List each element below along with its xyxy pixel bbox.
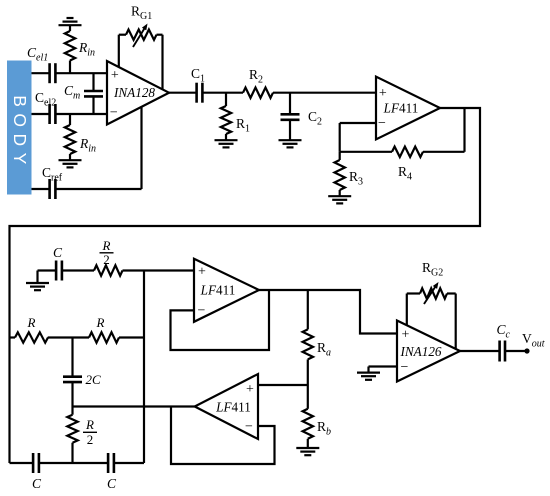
svg-text:C: C: [107, 476, 117, 491]
pin + U2: [379, 86, 387, 101]
node Vout terminal: [524, 348, 529, 353]
svg-text:+: +: [246, 382, 254, 397]
rheostat RG1: [126, 24, 157, 48]
resistor R3: [335, 160, 345, 190]
svg-text:+: +: [402, 327, 410, 342]
wire RG2 right leg: [447, 294, 456, 350]
wire line1 body to INA128 +in: [32, 72, 108, 74]
svg-text:2: 2: [87, 432, 94, 447]
label R/2 row3: [83, 417, 97, 447]
svg-text:+: +: [379, 86, 387, 101]
resistor R3 stubs: [339, 152, 341, 196]
svg-text:INA128: INA128: [113, 85, 155, 100]
wire RG1 left leg: [119, 35, 126, 67]
wire row3: [73, 405, 195, 407]
resistor R1: [221, 106, 231, 134]
wire node vertical x144: [143, 271, 145, 464]
capacitor Cc: [500, 341, 505, 362]
capacitor C bottom-2: [108, 453, 114, 473]
label LF411 U3: [200, 283, 236, 298]
wire U2 output to bottom section: [10, 108, 481, 463]
wire RG1 right leg: [157, 35, 163, 90]
op-amp U4 LF411: [195, 374, 258, 439]
pin - U2: [378, 116, 386, 131]
ground Rin bottom: [59, 160, 82, 167]
svg-text:2: 2: [103, 252, 110, 267]
wire R2 to LF411 +in: [273, 92, 376, 94]
label Cc: [497, 322, 511, 341]
label Rb: [317, 419, 331, 438]
pin + INA128: [111, 68, 119, 83]
label Vout: [522, 331, 545, 350]
label R3: [349, 169, 363, 188]
capacitor C row1: [56, 261, 62, 281]
svg-text:R: R: [96, 315, 105, 330]
pin - U4: [245, 420, 253, 435]
wire Rin-top stub: [69, 25, 71, 73]
pin + U5: [402, 327, 410, 342]
label C bottom-2: [107, 476, 117, 491]
op-amp U3 LF411: [194, 259, 259, 322]
resistor R row2-2: [89, 332, 119, 342]
capacitor C bottom-1: [33, 453, 39, 473]
resistor R row2-1: [15, 332, 48, 342]
label Cref: [42, 165, 63, 184]
wire U4 feedback: [171, 407, 275, 465]
svg-text:+: +: [111, 68, 119, 83]
label Cel2: [35, 90, 56, 109]
svg-text:C: C: [32, 476, 42, 491]
wire C2 stubs: [289, 93, 291, 141]
resistor Rin top: [65, 31, 75, 61]
label C row1: [53, 245, 63, 260]
svg-text:LF411: LF411: [383, 101, 419, 116]
svg-text:−: −: [245, 420, 253, 435]
rheostat RG2: [420, 282, 447, 304]
wire row2 c: [119, 336, 144, 338]
label R row2-1: [27, 315, 36, 330]
svg-text:R: R: [102, 238, 111, 253]
wire bottom row a: [10, 462, 33, 464]
label INA126: [399, 344, 441, 359]
pin - U3: [198, 304, 206, 319]
label C bottom-1: [32, 476, 42, 491]
label LF411 top: [383, 101, 419, 116]
svg-text:+: +: [198, 264, 206, 279]
wire row2 a: [10, 336, 16, 338]
pin + U3: [198, 264, 206, 279]
wire Cc to Vout terminal: [506, 350, 528, 352]
pin - INA128: [110, 106, 118, 121]
wire bottom row c: [114, 462, 144, 464]
resistor Ra: [303, 329, 313, 359]
wire line2 body to INA128 -in: [32, 113, 108, 115]
wire row1 a: [38, 269, 56, 271]
resistor Ra stubs: [307, 290, 309, 385]
svg-text:LF411: LF411: [215, 400, 251, 415]
svg-text:−: −: [198, 304, 206, 319]
capacitor 2C: [63, 377, 82, 382]
pin - U5: [401, 360, 409, 375]
capacitor Cel1: [50, 63, 56, 83]
op-amp U5 INA126: [397, 321, 460, 382]
resistor Rb stubs: [307, 385, 309, 448]
ground top (inverted): [59, 18, 82, 25]
ground R1: [215, 140, 238, 147]
svg-text:INA126: INA126: [399, 344, 441, 359]
svg-text:R: R: [27, 315, 36, 330]
wire row1 to U3 +in: [123, 269, 195, 271]
label RG1: [131, 4, 152, 23]
ground R3: [328, 196, 351, 203]
ground row1: [26, 271, 49, 291]
label R4: [398, 164, 412, 183]
wire U3 out to INA126: [259, 290, 397, 334]
svg-text:−: −: [401, 360, 409, 375]
label Cel1: [27, 45, 48, 64]
label RG2: [422, 260, 443, 279]
wire Cref to INA128 ref pin: [140, 106, 142, 189]
capacitor Cel2: [50, 104, 56, 124]
label Ra: [317, 340, 331, 359]
resistor Rb: [303, 409, 313, 439]
ground U5 -in: [357, 373, 380, 380]
wire row2 b: [48, 336, 89, 338]
wire feedback right: [423, 108, 465, 152]
label R1: [236, 116, 250, 135]
capacitor C2: [281, 114, 300, 120]
label C2: [308, 109, 322, 128]
op-amp U1 INA128: [107, 61, 169, 125]
wire C1 to R2: [203, 92, 243, 94]
svg-text:R: R: [85, 417, 94, 432]
capacitor Cref: [50, 179, 56, 199]
wire U2 -in to R3 node: [340, 123, 376, 152]
resistor R/2 row3: [67, 415, 77, 443]
capacitor C1: [197, 83, 203, 103]
label LF411 U4: [215, 400, 251, 415]
capacitor Cm: [84, 91, 103, 96]
BODY electrode block: [7, 61, 32, 195]
label R/2 row1: [100, 238, 114, 267]
label 2C: [86, 372, 102, 387]
label C1: [191, 66, 205, 85]
svg-text:2C: 2C: [86, 372, 102, 387]
svg-text:C: C: [53, 245, 63, 260]
wire INA128 out to C1: [169, 92, 196, 94]
wire U5 -in to ground: [369, 367, 398, 373]
svg-text:−: −: [110, 106, 118, 121]
resistor R4: [392, 147, 423, 157]
wire U3 feedback: [171, 290, 270, 350]
label Rin top: [78, 40, 95, 59]
label R2: [249, 67, 263, 86]
wire Cm stubs: [92, 73, 94, 114]
ground Rb: [296, 448, 319, 455]
resistor Rin bottom: [65, 125, 75, 154]
op-amp U2 LF411: [376, 77, 440, 140]
wire bottom row b: [39, 462, 108, 464]
resistor R/2-2 stubs: [71, 407, 73, 464]
wire RG2 left leg: [407, 294, 420, 326]
resistor R1 stub: [225, 93, 227, 141]
label Cm: [64, 83, 80, 102]
label R row2-2: [96, 315, 105, 330]
label Rin bottom: [79, 136, 96, 155]
pin + U4: [246, 382, 254, 397]
ground C2: [279, 140, 302, 147]
wire Ra-Rb node to U4 +in: [258, 384, 308, 386]
wire 2C stubs: [71, 338, 73, 407]
wire line3 Cref net: [32, 188, 142, 190]
wire U5 out to Cc: [460, 350, 499, 352]
wire feedback left: [340, 151, 392, 153]
svg-text:BODY: BODY: [10, 95, 30, 171]
resistor R/2 row1: [94, 265, 123, 275]
wire row1 b: [62, 269, 94, 271]
resistor R2: [243, 88, 273, 98]
svg-text:LF411: LF411: [200, 283, 236, 298]
svg-text:−: −: [378, 116, 386, 131]
label INA128: [113, 85, 155, 100]
wire Rin-bottom stubs: [69, 114, 71, 160]
